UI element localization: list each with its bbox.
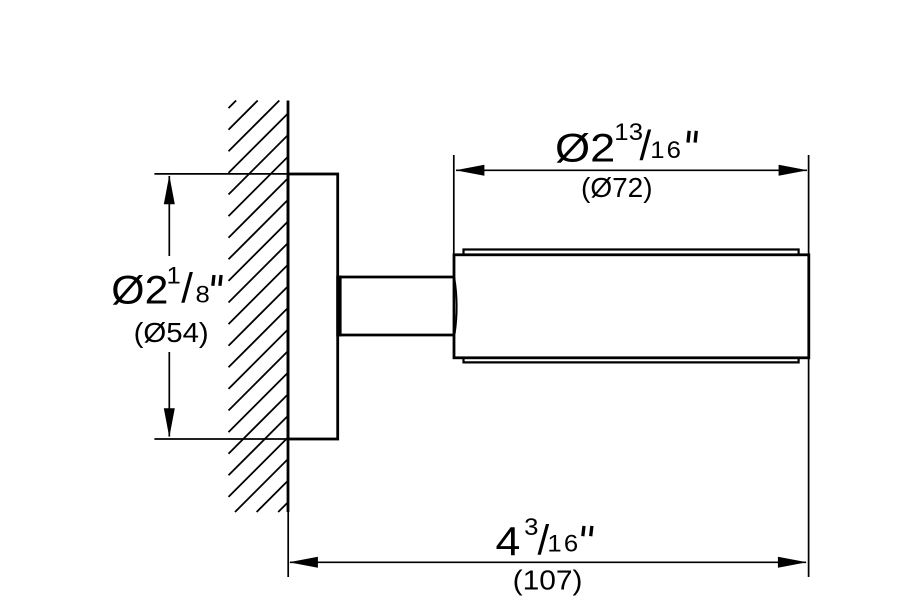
wall face line (287, 101, 290, 513)
arrow left of diameter 72 (455, 165, 484, 176)
dim extension line left of diameter 72 (453, 155, 455, 254)
arrow down of diameter 54 (164, 408, 175, 437)
holder rim top (464, 250, 799, 256)
svg-text:/: / (181, 265, 193, 312)
wall hatching (229, 101, 289, 513)
svg-text:(Ø72): (Ø72) (581, 172, 653, 203)
dim extension line bottom of diameter 54 (154, 438, 288, 440)
stem bottom line (339, 334, 454, 337)
label diameter 2 1/8 inch (111, 263, 221, 312)
svg-text:4: 4 (496, 519, 521, 565)
svg-text:8: 8 (196, 282, 210, 308)
label 4 3/16 inch (496, 515, 592, 565)
holder rim bottom (464, 358, 799, 363)
dim line diameter 72 (456, 169, 807, 171)
dim line diameter 54 lower segment (168, 352, 170, 437)
arrow right of 107 (778, 557, 807, 568)
label diameter 2 13/16 inch (555, 120, 696, 171)
dim line 107 (290, 561, 806, 563)
stem top line (339, 276, 454, 279)
dim extension line right shared (808, 155, 810, 577)
stem root shadow bar (336, 276, 341, 337)
svg-text:Ø2: Ø2 (111, 268, 168, 312)
wall plate (escutcheon) outline (288, 174, 338, 439)
arrow right of diameter 72 (779, 165, 808, 176)
svg-text:16: 16 (547, 531, 580, 557)
svg-text:3: 3 (524, 515, 538, 541)
svg-text:(Ø54): (Ø54) (134, 318, 209, 349)
holder neck fillet arc (454, 277, 456, 333)
svg-text:1: 1 (167, 263, 181, 289)
holder body outline (454, 255, 809, 358)
svg-text:(107): (107) (513, 565, 583, 596)
svg-text:Ø2: Ø2 (555, 126, 615, 171)
dim extension line top of diameter 54 (154, 173, 288, 175)
svg-text:16: 16 (650, 138, 683, 164)
arrow up of diameter 54 (164, 175, 175, 204)
arrow left of 107 (289, 557, 318, 568)
dim line diameter 54 upper segment (168, 176, 170, 256)
dim extension line left of 107 (287, 512, 289, 577)
